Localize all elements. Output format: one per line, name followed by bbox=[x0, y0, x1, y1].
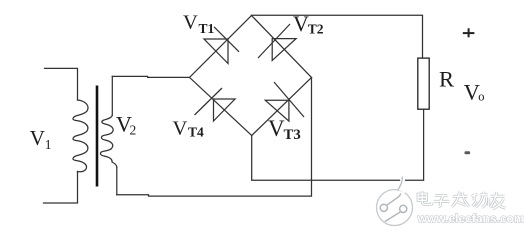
svg-text:2: 2 bbox=[130, 122, 137, 137]
glyph shao bbox=[471, 192, 489, 208]
svg-text:V: V bbox=[293, 11, 309, 36]
label plus bbox=[463, 28, 475, 37]
label VT2 bbox=[293, 11, 324, 36]
glyph zi bbox=[434, 196, 450, 207]
thyristor VT1 bbox=[204, 27, 239, 64]
thyristor VT2 bbox=[258, 24, 296, 61]
wire primary bottom stub bbox=[44, 172, 78, 204]
wire secondary top to bridge left node bbox=[112, 76, 189, 77]
transformer secondary lead bottom bbox=[116, 167, 118, 195]
svg-text:T2: T2 bbox=[308, 21, 324, 36]
svg-text:V: V bbox=[268, 116, 285, 141]
wire bridge arm top-right bbox=[252, 16, 312, 78]
wire secondary bottom to bridge right node bbox=[117, 78, 312, 197]
glyph fa bbox=[452, 192, 470, 207]
label VT3 bbox=[268, 116, 301, 143]
wire bridge arm left-bottom bbox=[190, 77, 252, 135]
svg-text:V: V bbox=[173, 117, 188, 139]
wire primary top stub bbox=[45, 68, 78, 100]
svg-text:V: V bbox=[183, 12, 198, 34]
label VT4 bbox=[173, 117, 205, 139]
wire bottom node to resistor bottom bbox=[252, 109, 424, 180]
resistor R bbox=[418, 58, 429, 109]
watermark logo elecfans bbox=[377, 177, 413, 226]
wire bridge arm bottom-right bbox=[252, 78, 312, 136]
glyph you bbox=[490, 192, 506, 209]
svg-text:o: o bbox=[478, 90, 484, 104]
wire bridge arm left-top bbox=[190, 16, 252, 78]
label V1 bbox=[30, 126, 52, 152]
svg-text:1: 1 bbox=[45, 137, 52, 152]
thyristor VT4 bbox=[195, 88, 236, 121]
label VT1 bbox=[183, 12, 215, 36]
svg-text:V: V bbox=[30, 126, 45, 150]
transformer core bbox=[96, 86, 99, 187]
svg-text:www.elecfans.com: www.elecfans.com bbox=[417, 212, 524, 226]
label V2 bbox=[116, 111, 136, 137]
label minus bbox=[465, 151, 471, 154]
svg-text:T3: T3 bbox=[284, 127, 301, 143]
label Vo bbox=[464, 80, 485, 105]
svg-text:T1: T1 bbox=[199, 21, 215, 36]
svg-text:T4: T4 bbox=[188, 125, 204, 140]
thyristor VT3 bbox=[265, 82, 304, 121]
transformer secondary lead top bbox=[111, 76, 113, 115]
wire top node to resistor top bbox=[252, 15, 423, 58]
transformer secondary winding bbox=[100, 115, 116, 167]
svg-text:R: R bbox=[439, 67, 454, 92]
transformer primary winding bbox=[73, 100, 88, 172]
glyph dian bbox=[418, 191, 432, 205]
watermark text dianzifashaoyou bbox=[418, 191, 506, 209]
